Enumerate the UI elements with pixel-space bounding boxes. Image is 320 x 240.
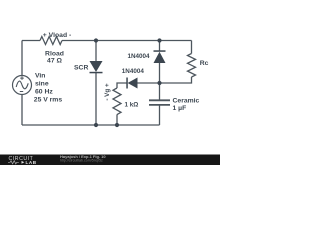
svg-text:1N4004: 1N4004 xyxy=(122,68,145,75)
footer logo arrow xyxy=(22,161,25,164)
wire bottom rail xyxy=(22,124,160,126)
wire left branch upper xyxy=(21,41,23,76)
svg-text:1N4004: 1N4004 xyxy=(127,53,150,60)
svg-text:- Vg +: - Vg + xyxy=(104,83,111,101)
footer bar xyxy=(0,155,220,166)
wire SCR anode xyxy=(95,41,97,62)
footer logo resistor zigzag xyxy=(8,161,19,164)
diode D1 cathode bar xyxy=(154,50,166,52)
wire SCR cathode xyxy=(95,73,97,126)
svg-text:htip://circuitlab.com/5nqr5z: htip://circuitlab.com/5nqr5z xyxy=(60,158,103,162)
capacitor C1 plates xyxy=(149,100,170,105)
source sine wave xyxy=(16,81,28,89)
diode D2 cathode bar xyxy=(126,78,128,89)
wire gate node horizontal left xyxy=(117,83,127,88)
wire capacitor top lead xyxy=(159,83,161,100)
wire diode D2 to node xyxy=(138,82,160,84)
svg-text:Rload: Rload xyxy=(45,50,64,57)
resistor Rload xyxy=(40,37,62,45)
svg-text:25 V rms: 25 V rms xyxy=(34,96,63,103)
wire Rc top lead xyxy=(191,41,193,54)
svg-text:60 Hz: 60 Hz xyxy=(35,88,53,95)
svg-text:Rc: Rc xyxy=(200,60,209,67)
resistor R 1k xyxy=(113,88,121,115)
diode D1 triangle (points up) xyxy=(154,52,166,63)
wire top rail left segment xyxy=(22,40,40,42)
svg-text:Ceramic: Ceramic xyxy=(173,97,200,104)
junction dot node gate xyxy=(157,81,161,85)
SCR triangle xyxy=(90,61,103,72)
svg-text:Vin: Vin xyxy=(35,73,45,80)
svg-text:SCR: SCR xyxy=(74,65,88,72)
svg-text:47 Ω: 47 Ω xyxy=(47,57,62,64)
wire node to Rc bottom xyxy=(160,77,192,83)
wire top rail right segment xyxy=(62,40,192,42)
junction dot top D1 xyxy=(157,38,161,42)
resistor Rc xyxy=(188,54,196,78)
voltage source Vin circle xyxy=(13,76,32,95)
junction dot top SCR xyxy=(94,38,98,42)
svg-text:+ Vload -: + Vload - xyxy=(43,32,72,39)
wire capacitor bottom lead xyxy=(159,105,161,125)
diode D2 triangle (points left) xyxy=(128,78,138,89)
SCR cathode bar xyxy=(90,72,103,74)
source plus mark xyxy=(20,76,24,80)
svg-text:1 µF: 1 µF xyxy=(173,105,187,112)
svg-text:1 kΩ: 1 kΩ xyxy=(125,101,139,108)
wire diode D1 top lead xyxy=(159,41,161,52)
svg-text:sine: sine xyxy=(35,81,49,88)
wire left branch lower xyxy=(21,95,23,126)
wire 1k bottom lead xyxy=(116,115,118,126)
wire diode D1 bottom lead xyxy=(159,63,161,83)
svg-text:LAB: LAB xyxy=(26,160,37,165)
junction dot bottom 1k xyxy=(115,123,119,127)
source minus mark xyxy=(20,91,23,93)
junction dot bottom SCR xyxy=(94,123,98,127)
